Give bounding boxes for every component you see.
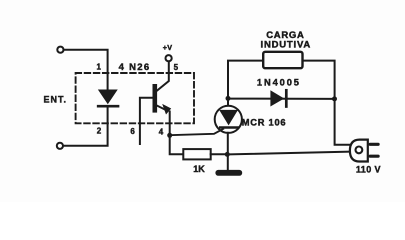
LED D1 (triangle + bar) <box>99 90 117 103</box>
svg-text:4: 4 <box>159 127 164 136</box>
plug prong top <box>369 143 380 146</box>
svg-text:5: 5 <box>174 63 179 72</box>
wire +V to collector <box>157 62 169 91</box>
optocoupler U1 4N26 dashed box <box>76 73 194 123</box>
wire load right to plug <box>303 61 350 145</box>
+V terminal <box>166 55 172 61</box>
wire load left + SCR anode <box>228 61 263 106</box>
plug prong bottom <box>369 155 380 158</box>
node diode right junction <box>332 96 337 101</box>
input terminal top <box>57 47 63 53</box>
node anode/diode junction <box>226 96 231 101</box>
svg-text:+V: +V <box>163 43 173 52</box>
input terminal bottom <box>57 143 63 149</box>
svg-text:2: 2 <box>97 127 102 136</box>
svg-text:1: 1 <box>97 63 102 72</box>
diode D2 triangle + bar <box>270 90 284 106</box>
wire from top terminal to LED anode <box>64 50 108 91</box>
load box <box>263 52 302 68</box>
wire gate (node to SCR gate) <box>170 129 224 135</box>
svg-text:4 N26: 4 N26 <box>119 62 151 73</box>
plug inner circle <box>356 147 363 154</box>
svg-text:1N4005: 1N4005 <box>257 77 301 87</box>
svg-text:ENT.: ENT. <box>44 95 68 105</box>
wire from bottom terminal to LED cathode <box>63 107 107 146</box>
resistor R1 1K <box>183 149 210 159</box>
wire cathode to ground <box>227 133 229 171</box>
wire emitter to node <box>169 112 171 136</box>
ground bar <box>215 170 242 176</box>
emitter wire with arrow <box>157 106 168 111</box>
node cathode junction <box>225 152 230 157</box>
svg-text:1K: 1K <box>193 164 205 174</box>
svg-text:110 V: 110 V <box>356 164 381 174</box>
wire resistor to cathode node <box>211 153 227 155</box>
base lead wire <box>140 98 153 144</box>
emitter arrowhead <box>162 104 171 115</box>
svg-text:MCR 106: MCR 106 <box>242 117 287 127</box>
svg-text:INDUTIVA: INDUTIVA <box>261 39 312 50</box>
plug body <box>350 140 368 162</box>
wire cathode node to plug <box>230 152 350 155</box>
svg-text:6: 6 <box>130 127 135 136</box>
diode D2 1N4005 wire <box>229 98 334 100</box>
wire node to resistor <box>170 135 184 154</box>
SCR Q1 MCR106 <box>215 106 242 133</box>
phototransistor base bar <box>153 86 158 110</box>
node junction pin4/gate/resistor <box>167 133 172 138</box>
